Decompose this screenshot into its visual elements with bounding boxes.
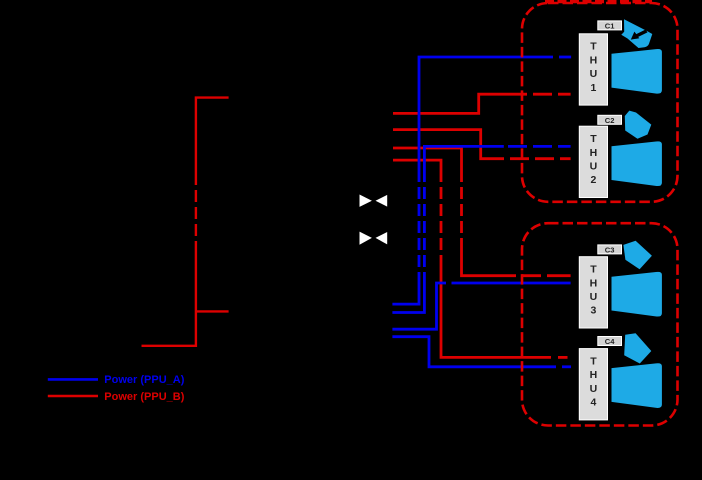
branch group 1 border top clipped dash row <box>545 0 652 3</box>
svg-text:C1: C1 <box>605 21 615 30</box>
svg-text:C4: C4 <box>605 337 615 346</box>
THU1 box <box>579 34 607 105</box>
svg-text:3: 3 <box>590 305 596 317</box>
svg-text:U: U <box>590 291 598 303</box>
wire: red PPU_B to THU4 <box>393 160 568 357</box>
wire: blue PPU_A to THU1 <box>392 57 571 304</box>
valve V1 (white bowtie) <box>360 195 388 207</box>
svg-text:T: T <box>590 264 597 276</box>
svg-text:4: 4 <box>590 397 596 409</box>
cathode label C3 <box>598 245 622 255</box>
wire: PPU_B supply harness (far left red bracket) <box>142 98 229 346</box>
svg-text:1: 1 <box>590 82 596 94</box>
svg-text:U: U <box>590 68 598 80</box>
wire: blue PPU_A to THU4 <box>392 337 571 367</box>
wire: blue PPU_A to THU2 <box>392 146 570 312</box>
cathode label C4 <box>598 337 622 347</box>
thruster gimbal vane 2 (cyan) <box>625 111 652 139</box>
wire: red PPU_B to THU2 <box>393 130 571 159</box>
cathode label C2 <box>598 115 622 125</box>
branch group 1 dashed border <box>522 3 678 202</box>
svg-text:H: H <box>590 369 598 381</box>
svg-text:H: H <box>590 147 598 159</box>
wire: red PPU_B to THU3 <box>393 148 571 276</box>
svg-text:U: U <box>590 383 598 395</box>
svg-text:T: T <box>590 133 597 145</box>
THU3 box <box>579 257 607 328</box>
thruster nozzle 1 (cyan) <box>612 49 662 94</box>
svg-text:C2: C2 <box>605 116 615 125</box>
svg-text:2: 2 <box>590 174 596 186</box>
thruster gimbal arrow 1 (cyan with black arrowhead) <box>621 19 652 48</box>
THU2 box <box>579 126 607 197</box>
valve V2 (white bowtie) <box>360 232 388 245</box>
svg-text:U: U <box>590 161 598 173</box>
branch group 2 dashed border <box>522 223 678 425</box>
svg-text:H: H <box>590 54 598 66</box>
wire: red PPU_B to THU1 <box>393 94 571 113</box>
svg-text:T: T <box>590 41 597 53</box>
wire: dash gaps on far-left red vertical <box>194 185 197 241</box>
svg-text:Power (PPU_B): Power (PPU_B) <box>104 391 184 403</box>
wire: blue PPU_A to THU3 <box>392 283 570 329</box>
THU4 box <box>579 349 607 420</box>
legend: red power line sample <box>48 395 98 398</box>
legend: blue power line sample <box>48 378 98 381</box>
cathode label C1 <box>598 21 622 31</box>
thruster gimbal vane 3 (cyan) <box>623 241 652 269</box>
svg-text:Power (PPU_A): Power (PPU_A) <box>104 374 184 386</box>
svg-text:H: H <box>590 277 598 289</box>
thruster nozzle 3 (cyan) <box>612 272 662 317</box>
thruster gimbal vane 4 (cyan) <box>624 333 651 363</box>
thruster nozzle 2 (cyan) <box>612 141 662 186</box>
thruster nozzle 4 (cyan) <box>612 363 662 408</box>
svg-text:C3: C3 <box>605 245 615 254</box>
svg-text:T: T <box>590 356 597 368</box>
